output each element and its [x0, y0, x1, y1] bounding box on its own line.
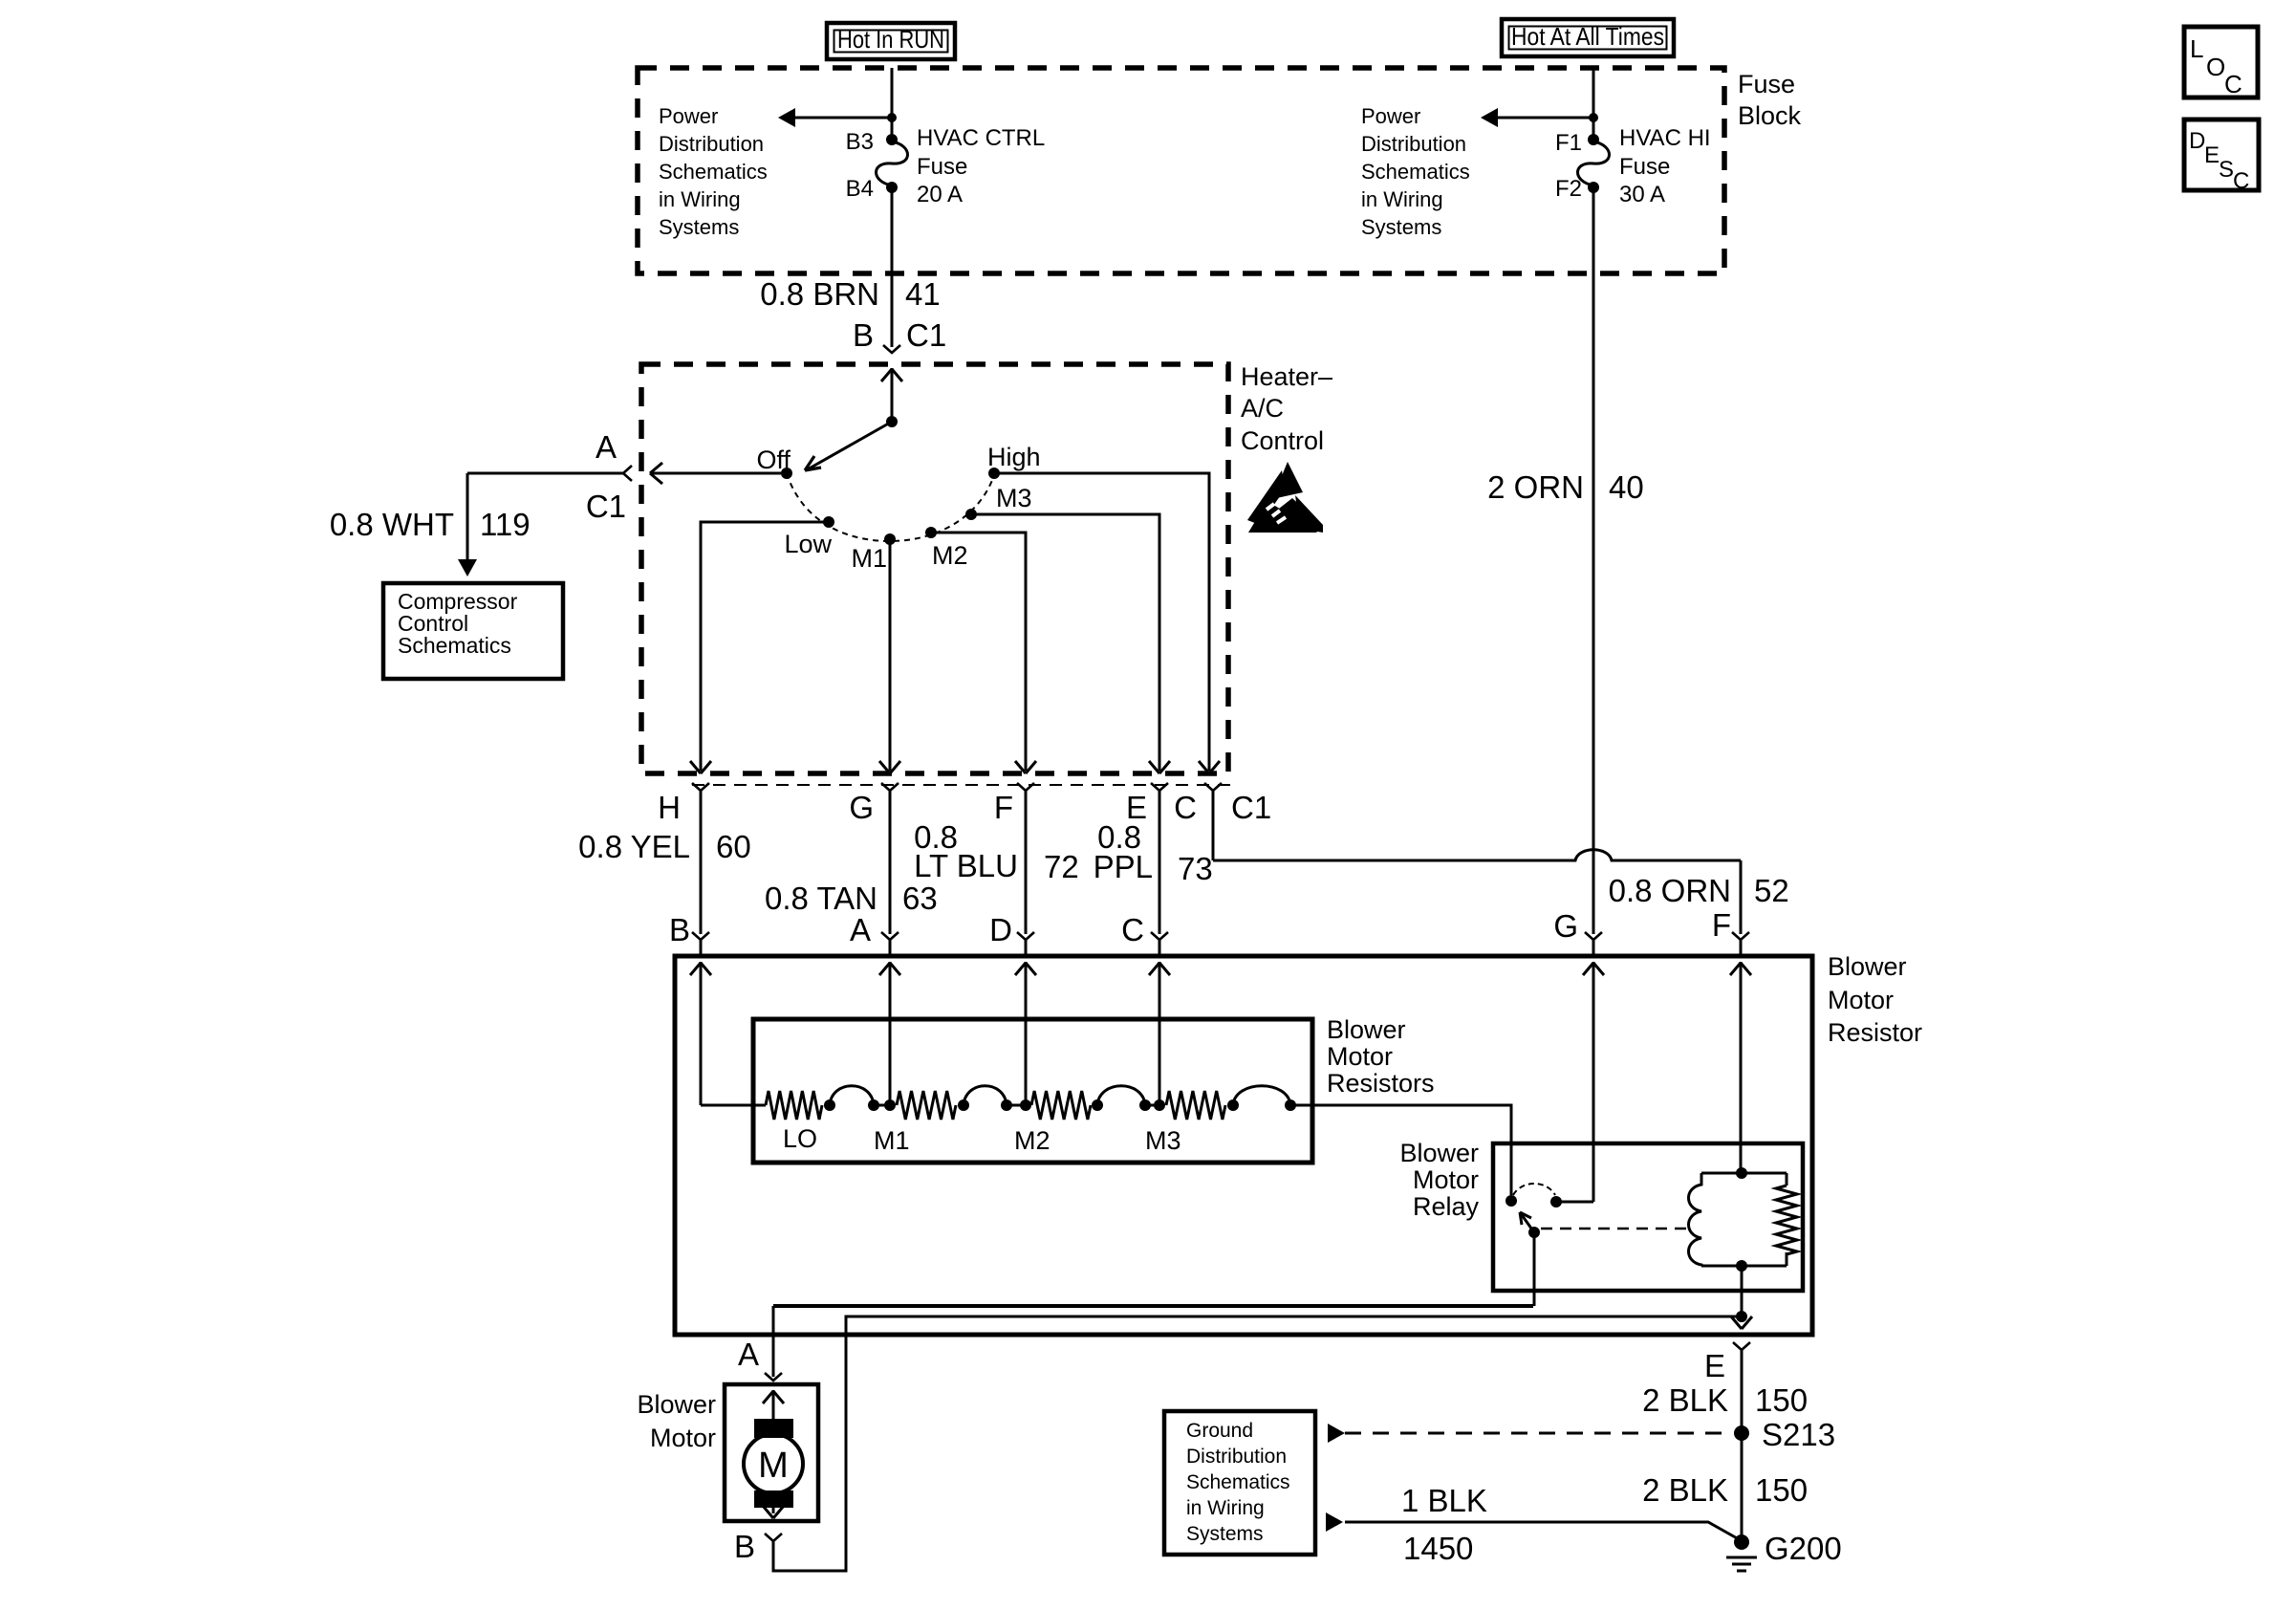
svg-text:in Wiring: in Wiring — [1361, 187, 1443, 211]
svg-text:Heater–: Heater– — [1241, 362, 1332, 391]
svg-text:41: 41 — [905, 276, 941, 312]
svg-text:Fuse: Fuse — [1619, 154, 1670, 180]
svg-text:C: C — [2224, 70, 2242, 98]
svg-text:G200: G200 — [1765, 1531, 1842, 1566]
svg-text:in Wiring: in Wiring — [1186, 1497, 1265, 1519]
svg-text:A/C: A/C — [1241, 394, 1284, 423]
svg-text:2 BLK: 2 BLK — [1642, 1382, 1728, 1418]
svg-text:Off: Off — [756, 446, 791, 474]
svg-text:Hot At All Times: Hot At All Times — [1511, 22, 1664, 51]
svg-text:0.8 WHT: 0.8 WHT — [330, 507, 454, 542]
svg-text:D: D — [2189, 128, 2205, 154]
svg-text:30 A: 30 A — [1619, 182, 1665, 207]
svg-text:40: 40 — [1609, 469, 1644, 505]
svg-text:PPL: PPL — [1094, 849, 1153, 884]
svg-text:S213: S213 — [1762, 1417, 1835, 1452]
svg-text:Block: Block — [1738, 101, 1802, 130]
svg-text:F: F — [1712, 907, 1731, 943]
svg-text:73: 73 — [1178, 851, 1213, 886]
svg-text:Power: Power — [1361, 104, 1420, 128]
svg-text:C1: C1 — [906, 317, 946, 353]
svg-text:119: 119 — [480, 507, 531, 542]
svg-text:Motor: Motor — [1413, 1165, 1479, 1194]
svg-text:150: 150 — [1755, 1382, 1808, 1418]
svg-text:L: L — [2190, 34, 2203, 63]
svg-text:60: 60 — [716, 829, 751, 864]
svg-text:F: F — [994, 790, 1013, 825]
svg-text:Resistor: Resistor — [1828, 1018, 1922, 1047]
svg-text:C: C — [2233, 168, 2249, 194]
svg-text:B: B — [853, 317, 874, 353]
svg-text:O: O — [2206, 53, 2225, 81]
svg-text:B: B — [669, 912, 690, 947]
svg-text:150: 150 — [1755, 1472, 1808, 1508]
svg-text:C1: C1 — [1231, 790, 1271, 825]
svg-text:Distribution: Distribution — [1361, 132, 1466, 156]
svg-text:Blower: Blower — [1327, 1015, 1406, 1044]
svg-text:Motor: Motor — [650, 1424, 716, 1452]
svg-text:Blower: Blower — [637, 1390, 716, 1419]
svg-text:H: H — [658, 790, 681, 825]
svg-text:M1: M1 — [874, 1126, 910, 1155]
svg-text:Hot In RUN: Hot In RUN — [837, 25, 944, 54]
svg-text:Fuse: Fuse — [917, 154, 967, 180]
svg-text:M: M — [758, 1446, 789, 1486]
svg-text:M2: M2 — [932, 541, 968, 570]
svg-text:B4: B4 — [846, 176, 874, 202]
svg-text:M2: M2 — [1014, 1126, 1051, 1155]
svg-text:52: 52 — [1754, 873, 1789, 908]
svg-text:D: D — [989, 912, 1012, 947]
svg-text:C: C — [1121, 912, 1144, 947]
svg-text:in Wiring: in Wiring — [659, 187, 741, 211]
svg-text:Distribution: Distribution — [659, 132, 764, 156]
svg-text:0.8 ORN: 0.8 ORN — [1609, 873, 1731, 908]
svg-text:HVAC HI: HVAC HI — [1619, 125, 1711, 151]
svg-text:LO: LO — [783, 1124, 817, 1153]
svg-text:Power: Power — [659, 104, 718, 128]
svg-text:Ground: Ground — [1186, 1420, 1253, 1442]
svg-text:Motor: Motor — [1828, 986, 1894, 1014]
svg-text:Blower: Blower — [1828, 952, 1907, 981]
svg-text:Control: Control — [1241, 426, 1324, 455]
svg-text:Blower: Blower — [1399, 1139, 1479, 1167]
svg-text:A: A — [596, 429, 617, 465]
svg-text:Relay: Relay — [1413, 1192, 1480, 1221]
svg-text:63: 63 — [902, 881, 938, 916]
svg-text:C: C — [1174, 790, 1197, 825]
svg-text:M1: M1 — [851, 544, 887, 573]
svg-text:Schematics: Schematics — [659, 160, 768, 184]
svg-text:High: High — [987, 443, 1041, 471]
svg-text:2 BLK: 2 BLK — [1642, 1472, 1728, 1508]
svg-text:72: 72 — [1044, 849, 1079, 884]
svg-text:1450: 1450 — [1403, 1531, 1473, 1566]
svg-text:0.8 TAN: 0.8 TAN — [765, 881, 877, 916]
svg-text:S: S — [2219, 157, 2234, 183]
svg-text:Schematics: Schematics — [1186, 1471, 1290, 1493]
svg-text:G: G — [849, 790, 874, 825]
svg-text:0.8 YEL: 0.8 YEL — [578, 829, 690, 864]
svg-text:1 BLK: 1 BLK — [1401, 1483, 1487, 1518]
svg-text:A: A — [738, 1337, 759, 1372]
svg-text:Fuse: Fuse — [1738, 70, 1795, 98]
svg-text:Schematics: Schematics — [398, 633, 511, 658]
svg-text:B3: B3 — [846, 129, 874, 155]
svg-text:Systems: Systems — [1361, 215, 1441, 239]
svg-text:Resistors: Resistors — [1327, 1069, 1435, 1098]
svg-text:C1: C1 — [586, 489, 626, 524]
svg-text:M3: M3 — [996, 484, 1032, 512]
svg-text:Motor: Motor — [1327, 1042, 1393, 1071]
svg-text:M3: M3 — [1145, 1126, 1181, 1155]
svg-text:F1: F1 — [1555, 130, 1582, 156]
svg-text:2 ORN: 2 ORN — [1487, 469, 1584, 505]
svg-text:20 A: 20 A — [917, 182, 963, 207]
svg-text:HVAC CTRL: HVAC CTRL — [917, 125, 1045, 151]
svg-text:Distribution: Distribution — [1186, 1446, 1287, 1468]
svg-text:E: E — [1704, 1348, 1725, 1383]
svg-text:0.8 BRN: 0.8 BRN — [760, 276, 879, 312]
svg-text:B: B — [734, 1529, 755, 1564]
svg-text:Schematics: Schematics — [1361, 160, 1470, 184]
svg-text:Low: Low — [784, 530, 832, 558]
svg-text:G: G — [1553, 908, 1578, 944]
svg-text:A: A — [850, 912, 871, 947]
svg-text:F2: F2 — [1555, 176, 1582, 202]
svg-text:E: E — [2204, 142, 2220, 168]
svg-text:LT BLU: LT BLU — [914, 848, 1018, 883]
svg-text:Systems: Systems — [659, 215, 739, 239]
svg-text:Systems: Systems — [1186, 1523, 1264, 1545]
